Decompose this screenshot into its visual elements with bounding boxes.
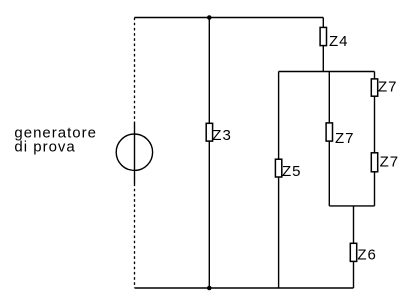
svg-text:Z6: Z6	[357, 247, 377, 264]
impedance Z7 bottom right	[371, 153, 377, 172]
wire Z4 stub upper	[322, 18, 324, 28]
wire generator solid lead	[134, 122, 136, 184]
wire bottom bus	[135, 287, 354, 289]
wire Z5 branch upper	[278, 72, 280, 160]
wire Z7 right branch upper stub	[374, 72, 376, 79]
wire Z5 branch lower	[278, 177, 280, 288]
wire Z6 stub lower	[353, 261, 355, 288]
svg-text:di prova: di prova	[14, 138, 75, 155]
svg-text:Z7: Z7	[380, 154, 400, 171]
impedance Z3	[206, 123, 212, 141]
wire Z3 branch lower	[208, 141, 210, 288]
impedance Z4	[320, 27, 326, 45]
svg-text:Z4: Z4	[329, 33, 349, 50]
wire Z7 middle branch lower	[328, 141, 330, 206]
svg-text:Z5: Z5	[282, 163, 302, 180]
wire Z7 box bottom	[329, 205, 374, 207]
wire generator dashed upper	[134, 18, 136, 123]
impedance Z7 top right	[371, 79, 377, 96]
impedance Z5	[275, 159, 281, 177]
wire top bus	[135, 17, 324, 19]
wire generator dashed lower	[134, 184, 136, 289]
wire Z4 stub lower	[322, 46, 324, 72]
generator source circle	[116, 134, 152, 170]
wire Z6 stub upper	[353, 206, 355, 243]
wire Z3 branch upper	[208, 18, 210, 124]
wire Z7 right branch middle	[374, 96, 376, 153]
svg-text:Z7: Z7	[335, 130, 355, 147]
wire Z7 right branch lower	[374, 172, 376, 206]
impedance Z6	[350, 243, 356, 261]
wire Z7 middle branch upper	[328, 72, 330, 123]
node top junction	[207, 15, 212, 20]
node bottom junction	[207, 286, 212, 291]
svg-text:Z3: Z3	[212, 127, 232, 144]
svg-text:Z7: Z7	[378, 79, 398, 96]
impedance Z7 middle	[326, 123, 332, 141]
wire middle bus	[279, 71, 375, 73]
